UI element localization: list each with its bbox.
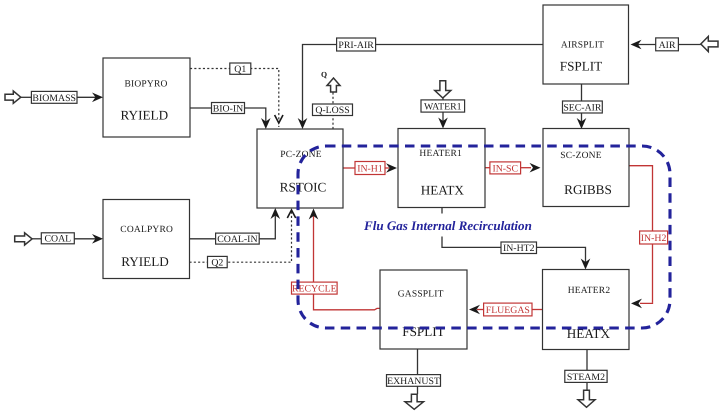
arrowhead AIR into AIRSPLIT <box>631 40 642 50</box>
wire Q-LOSS (dashed) <box>332 92 334 129</box>
wire BIOMASS inlet <box>21 96 32 98</box>
hollow block arrow WATER1 feed <box>435 81 451 98</box>
wire IN-H2 (red) <box>629 166 653 303</box>
svg-text:FSPLIT: FSPLIT <box>402 324 445 339</box>
svg-text:Flu Gas Internal Recirculation: Flu Gas Internal Recirculation <box>363 218 532 233</box>
svg-text:RGIBBS: RGIBBS <box>564 182 612 197</box>
svg-text:RSTOIC: RSTOIC <box>280 180 327 195</box>
wire BIO-IN <box>190 108 266 127</box>
block PC-ZONE <box>257 129 343 208</box>
stream label AIR <box>656 38 679 51</box>
stream label IN-H2 <box>640 231 668 244</box>
svg-text:RYIELD: RYIELD <box>121 254 169 269</box>
block HEATER2 <box>543 270 630 350</box>
stream label Q-LOSS <box>313 104 353 116</box>
svg-text:Q: Q <box>321 70 327 79</box>
svg-text:AIRSPLIT: AIRSPLIT <box>561 41 604 51</box>
wire WATER1 <box>442 98 444 127</box>
svg-text:PRI-AIR: PRI-AIR <box>338 40 374 51</box>
stream label FLUEGAS <box>484 303 532 316</box>
svg-text:Q-LOSS: Q-LOSS <box>315 105 349 116</box>
title Flu Gas Internal Recirculation <box>361 214 533 237</box>
stream label RECYCLE <box>292 282 338 294</box>
svg-text:SEC-AIR: SEC-AIR <box>563 102 602 113</box>
wire FLUEGAS to GASSPLIT (red) <box>477 309 484 311</box>
wire COAL-IN <box>190 210 276 239</box>
stream label Q1 <box>230 63 251 75</box>
stream label BIOMASS <box>31 91 77 103</box>
stream label IN-HT2 <box>501 242 537 254</box>
arrowhead SEC-AIR into SC-ZONE <box>577 118 587 129</box>
arrowhead BIO-IN into PC-ZONE <box>261 118 271 129</box>
svg-text:EXHANUST: EXHANUST <box>387 376 440 387</box>
block COALPYRO labels <box>120 225 173 269</box>
stream label COAL <box>41 233 74 245</box>
svg-text:IN-H2: IN-H2 <box>641 233 667 244</box>
arrowhead PRI-AIR into PC-ZONE <box>298 118 308 129</box>
arrowhead IN-H1 into HEATER1 <box>386 163 397 173</box>
wire STEAM2 to outlet <box>586 382 588 390</box>
hollow block arrow COAL feed <box>15 233 32 245</box>
wire AIR inlet <box>678 44 700 46</box>
svg-text:Q2: Q2 <box>211 257 223 268</box>
block HEATER2 labels <box>567 286 611 341</box>
wire IN-HT2 <box>442 208 586 268</box>
stream label IN-H1 <box>355 162 385 175</box>
wire IN-SC to SC-ZONE (red) <box>521 167 531 169</box>
svg-text:HEATX: HEATX <box>421 183 465 198</box>
block SC-ZONE labels <box>560 151 612 197</box>
stream label SEC-AIR <box>563 101 603 113</box>
svg-text:STEAM2: STEAM2 <box>567 372 605 383</box>
arrowhead into BIOPYRO <box>92 93 103 103</box>
block GASSPLIT labels <box>398 290 445 340</box>
stream label IN-SC <box>490 162 521 174</box>
wire heat Q1 (dashed) <box>190 69 279 128</box>
svg-text:BIOPYRO: BIOPYRO <box>124 80 167 90</box>
open arrowhead Q2 into PC-ZONE <box>287 210 295 218</box>
svg-text:COALPYRO: COALPYRO <box>120 225 173 235</box>
hollow block arrow Q-LOSS out <box>327 78 340 92</box>
svg-text:FLUEGAS: FLUEGAS <box>486 305 530 316</box>
block GASSPLIT <box>380 270 467 349</box>
stream label PRI-AIR <box>337 38 376 51</box>
arrowhead IN-HT2 into HEATER2 <box>581 259 591 270</box>
wire SEC-AIR <box>581 84 583 127</box>
svg-text:IN-SC: IN-SC <box>492 163 518 174</box>
wire IN-H1 (red) <box>343 167 355 169</box>
wire RECYCLE (red) <box>314 211 381 310</box>
svg-text:BIO-IN: BIO-IN <box>213 103 243 114</box>
wire COAL to COALPYRO <box>74 238 101 240</box>
wire BIOMASS to BIOPYRO <box>77 96 101 98</box>
svg-text:HEATER2: HEATER2 <box>568 286 611 296</box>
block SC-ZONE <box>543 129 629 207</box>
wire AIR to AIRSPLIT <box>637 44 656 46</box>
svg-text:AIR: AIR <box>659 40 676 51</box>
wire IN-H1 to HEATER1 (red) <box>385 167 389 169</box>
stream label COAL-IN <box>216 233 260 245</box>
svg-text:RYIELD: RYIELD <box>120 108 168 123</box>
Q symbol at Q-LOSS arrow <box>321 70 327 79</box>
svg-text:FSPLIT: FSPLIT <box>560 59 603 74</box>
wire COAL inlet <box>32 238 41 240</box>
svg-text:IN-H1: IN-H1 <box>357 163 383 174</box>
wire heat Q2 (dashed) <box>190 210 292 262</box>
arrowhead IN-H2 into HEATER2 <box>631 299 642 309</box>
arrowhead into COALPYRO <box>92 234 103 244</box>
recirculation loop boundary (blue dashed rounded rect) <box>298 146 670 328</box>
wire PRI-AIR <box>303 45 544 128</box>
arrowhead WATER1 into HEATER1 <box>438 118 448 129</box>
stream label EXHANUST <box>387 375 441 387</box>
block BIOPYRO <box>103 58 190 137</box>
svg-text:IN-HT2: IN-HT2 <box>503 243 535 254</box>
wire IN-SC (red) <box>485 167 490 169</box>
arrowhead FLUEGAS into GASSPLIT <box>469 305 480 315</box>
block BIOPYRO labels <box>120 80 168 123</box>
hollow block arrow EXHANUST out <box>405 394 424 409</box>
wire FLUEGAS (red) <box>532 309 543 311</box>
wire IN-H2 to HEATER2 (red) <box>640 302 653 303</box>
wire STEAM2 <box>586 350 588 371</box>
svg-text:WATER1: WATER1 <box>424 101 462 112</box>
hollow block arrow BIOMASS feed <box>5 91 21 103</box>
svg-text:Q1: Q1 <box>234 64 246 75</box>
svg-text:COAL-IN: COAL-IN <box>217 234 257 245</box>
stream label STEAM2 <box>565 370 607 382</box>
block COALPYRO <box>103 200 190 279</box>
hollow block arrow STEAM2 out <box>578 390 595 407</box>
svg-text:HEATER1: HEATER1 <box>419 149 462 159</box>
svg-text:HEATX: HEATX <box>567 326 611 341</box>
open arrowhead Q1 into PC-ZONE <box>275 115 283 123</box>
stream label Q2 <box>208 256 228 268</box>
block HEATER1 labels <box>419 149 464 198</box>
svg-text:SC-ZONE: SC-ZONE <box>560 151 602 161</box>
svg-text:BIOMASS: BIOMASS <box>32 93 76 104</box>
block PC-ZONE labels <box>280 150 327 195</box>
stream label WATER1 <box>421 100 465 113</box>
wire EXHANUST <box>417 349 419 375</box>
svg-text:COAL: COAL <box>44 234 71 245</box>
block AIRSPLIT <box>543 5 629 84</box>
arrowhead COAL-IN into PC-ZONE <box>271 208 281 219</box>
hollow block arrow AIR feed <box>701 36 718 51</box>
arrowhead IN-SC into SC-ZONE <box>530 163 541 173</box>
block HEATER1 <box>398 129 485 208</box>
stream label BIO-IN <box>212 103 245 115</box>
block AIRSPLIT labels <box>560 41 604 74</box>
wire EXHANUST to outlet <box>417 386 419 394</box>
svg-text:GASSPLIT: GASSPLIT <box>398 290 444 300</box>
arrowhead RECYCLE into PC-ZONE <box>309 209 319 220</box>
